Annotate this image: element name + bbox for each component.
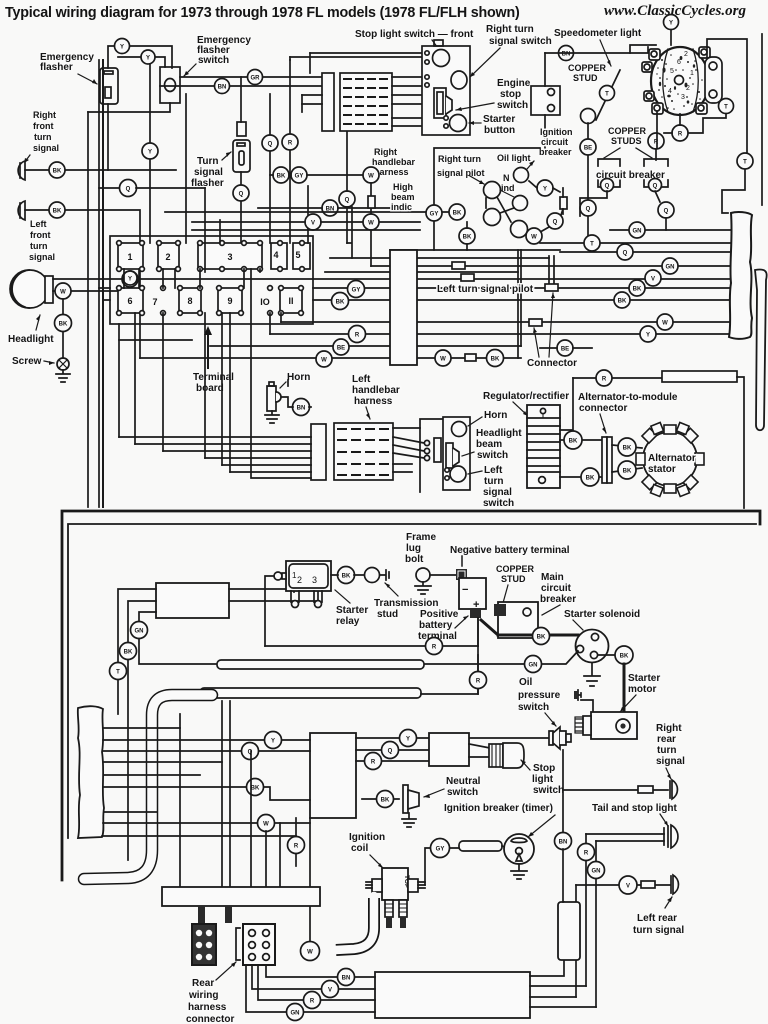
- wire x347: [346, 131, 348, 243]
- circle BK x281: [273, 167, 289, 183]
- ignition circuit breaker box: [531, 86, 560, 115]
- wire speedo top left: [630, 45, 656, 53]
- svg-text:Oil: Oil: [519, 677, 533, 688]
- bus y300: [103, 299, 731, 301]
- riser R: [585, 834, 587, 986]
- circle BK on thick wire: [533, 628, 550, 645]
- negative terminal stud: [456, 569, 467, 580]
- spark cable band: [335, 896, 374, 950]
- battery: [459, 578, 486, 609]
- svg-text:Left: Left: [30, 219, 47, 229]
- leader solenoid: [573, 620, 583, 630]
- leader negative terminal: [461, 556, 463, 566]
- svg-text:Y: Y: [646, 333, 650, 339]
- svg-text:handlebar: handlebar: [372, 157, 416, 167]
- long bar 1: [217, 660, 424, 669]
- svg-text:Ignition breaker (timer): Ignition breaker (timer): [444, 803, 553, 814]
- svg-text:Starter: Starter: [628, 673, 660, 684]
- wires into harness left: [302, 95, 322, 104]
- svg-text:connector: connector: [186, 1014, 234, 1024]
- svg-text:Right turn: Right turn: [438, 154, 481, 164]
- connector dots: [424, 440, 429, 445]
- starter solenoid body: [576, 630, 609, 663]
- svg-text:W: W: [307, 950, 313, 956]
- circle R coil feed: [288, 837, 305, 854]
- svg-text:front: front: [30, 230, 51, 240]
- svg-text:Ignition: Ignition: [540, 127, 573, 137]
- leader rear connector: [216, 962, 236, 980]
- svg-text:Tail and stop light: Tail and stop light: [592, 803, 677, 814]
- bus y358: [140, 357, 521, 359]
- wire x103 down: [102, 60, 104, 507]
- leader stop switch: [521, 760, 530, 770]
- relay left terminal: [274, 572, 282, 580]
- bus y212: [165, 211, 449, 213]
- svg-text:V: V: [651, 277, 655, 283]
- circle GY x299: [291, 167, 307, 183]
- headlight body: [11, 270, 49, 308]
- svg-text:R: R: [310, 999, 315, 1005]
- terminal 5: [293, 241, 310, 272]
- connector left rear: [641, 881, 655, 888]
- svg-text:BE: BE: [561, 347, 569, 353]
- svg-text:2: 2: [684, 51, 688, 58]
- svg-text:R: R: [602, 377, 607, 383]
- svg-text:Stop light switch — front: Stop light switch — front: [355, 29, 474, 40]
- vertical pair x549 x554: [549, 256, 554, 288]
- circle V left rear: [619, 876, 637, 894]
- svg-text:Q: Q: [586, 207, 591, 213]
- circle BK: [49, 162, 65, 178]
- svg-text:BK: BK: [59, 322, 68, 328]
- wire stud down: [587, 123, 589, 243]
- circle T on y243: [584, 235, 600, 251]
- svg-text:Negative battery terminal: Negative battery terminal: [450, 545, 570, 556]
- svg-text:8: 8: [187, 296, 192, 306]
- terminal 9: [217, 286, 244, 316]
- coil box bottom: [375, 972, 530, 1018]
- wire GR line: [180, 76, 322, 78]
- svg-text:2: 2: [297, 575, 302, 585]
- speedo bolts: [642, 47, 722, 114]
- svg-text:signal pilot: signal pilot: [437, 168, 485, 178]
- circle V on y279: [645, 270, 661, 286]
- bus y762: [104, 761, 222, 763]
- wire horn BN: [282, 380, 311, 407]
- svg-text:Y: Y: [271, 739, 275, 745]
- circle Q breaker2: [649, 179, 662, 192]
- svg-text:Q: Q: [388, 749, 393, 755]
- svg-text:Connector: Connector: [527, 358, 577, 369]
- turn signal flasher body: [233, 140, 250, 172]
- starter motor body: [591, 712, 637, 739]
- circle V rear: [322, 981, 339, 998]
- svg-text:beam: beam: [391, 192, 415, 202]
- svg-text:T: T: [605, 92, 609, 98]
- wire x150 from Y circle down: [149, 64, 151, 243]
- svg-text:Q: Q: [239, 192, 244, 198]
- circle T: [110, 663, 127, 680]
- lamp low: [511, 221, 528, 238]
- svg-text:Rear: Rear: [192, 978, 214, 989]
- wires harness right to switch: [392, 77, 446, 126]
- circle GN on y230: [629, 222, 645, 238]
- svg-text:T: T: [116, 670, 120, 676]
- neutral switch body: [403, 785, 408, 813]
- svg-text:1: 1: [690, 70, 694, 77]
- circle BN: [215, 79, 230, 94]
- circle Q: [580, 200, 596, 216]
- leader coil: [370, 855, 383, 868]
- leader arrow to emergency flasher: [78, 74, 97, 84]
- vertical pair x518 x521: [518, 250, 521, 358]
- circle BK: [55, 315, 72, 332]
- svg-text:battery: battery: [419, 620, 453, 631]
- circle W on y322: [657, 314, 673, 330]
- svg-text:turn: turn: [30, 241, 48, 251]
- connector small rect 4: [529, 319, 542, 326]
- rear connector block A: [192, 924, 216, 965]
- svg-text:Neutral: Neutral: [446, 776, 481, 787]
- circle GN on y266: [662, 258, 678, 274]
- wire x308 down: [307, 186, 309, 243]
- svg-text:R: R: [476, 679, 481, 685]
- svg-text:II: II: [288, 296, 293, 306]
- wire BN line: [545, 47, 648, 53]
- leader stop light switch: [432, 40, 438, 48]
- svg-text:Horn: Horn: [484, 410, 507, 421]
- svg-text:Headlight: Headlight: [476, 428, 522, 439]
- board inter-row stubs: [124, 269, 260, 288]
- circle Y: [142, 143, 158, 159]
- tall narrow connector box: [390, 250, 417, 365]
- circle Y cluster: [537, 180, 553, 196]
- module box 1: [310, 733, 356, 818]
- circle R on x478: [470, 672, 487, 689]
- leader positive terminal: [455, 616, 468, 628]
- svg-text:6: 6: [677, 59, 681, 66]
- emergency flasher body: [100, 68, 118, 104]
- circle R: [648, 133, 664, 149]
- wire x88 down: [87, 112, 89, 507]
- wires feed right to relay: [229, 589, 318, 601]
- bus y230: [192, 229, 420, 231]
- wire switch bottom loop: [88, 103, 170, 112]
- wire x186 from GR area down: [185, 94, 187, 243]
- wire headlight top feed y279: [53, 278, 390, 280]
- wire bar to lower box corner: [737, 377, 744, 508]
- terminal 3: [198, 241, 263, 272]
- leader transmission stud: [385, 583, 398, 596]
- svg-text:switch: switch: [198, 55, 229, 66]
- bus y272: [325, 271, 518, 273]
- svg-text:GY: GY: [295, 174, 304, 180]
- connector small rect 1: [452, 262, 465, 269]
- thick wire + to solenoid: [481, 620, 578, 635]
- svg-text:BK: BK: [623, 446, 632, 452]
- leader regulator: [513, 402, 528, 416]
- small component right of harness: [434, 438, 441, 462]
- verticals to bottom connectors: [180, 701, 280, 887]
- circle BK: [564, 431, 582, 449]
- svg-text:beam: beam: [476, 439, 502, 450]
- svg-text:Typical wiring diagram for 197: Typical wiring diagram for 1973 through …: [5, 5, 520, 21]
- right handlebar harness connector bar: [322, 73, 334, 131]
- svg-text:breaker: breaker: [540, 594, 576, 605]
- svg-text:Positive: Positive: [420, 609, 459, 620]
- wire top right of harness: [420, 419, 455, 492]
- wire feed left mid: [128, 601, 156, 860]
- circle GY on y288: [348, 281, 365, 298]
- circle Y above speedo: [670, 30, 672, 45]
- bus y266: [371, 265, 731, 267]
- circle D cluster: [547, 213, 563, 229]
- terminal 11: [279, 286, 304, 316]
- svg-text:Alternator-to-module: Alternator-to-module: [578, 392, 678, 403]
- svg-text:harness: harness: [188, 1002, 227, 1013]
- leader oil pressure: [545, 713, 556, 726]
- circle Y: [141, 50, 155, 64]
- alternator module connector bars: [602, 437, 607, 483]
- svg-text:W: W: [368, 221, 374, 227]
- circle T on diagonal: [600, 86, 615, 101]
- svg-text:Ignition: Ignition: [349, 832, 385, 843]
- svg-text:W: W: [60, 290, 66, 296]
- circle BN x330: [322, 200, 338, 216]
- circle BK lower bus: [247, 779, 264, 796]
- svg-text:BK: BK: [633, 287, 642, 293]
- svg-text:3: 3: [681, 94, 685, 101]
- wire x290 R drop: [289, 60, 291, 243]
- svg-text:Left rear: Left rear: [637, 913, 677, 924]
- condenser capsule: [459, 841, 502, 851]
- bus y346: [210, 345, 521, 347]
- wire feed x139: [139, 612, 217, 664]
- svg-text:Frame: Frame: [406, 532, 436, 543]
- svg-text:Speedometer light: Speedometer light: [554, 28, 642, 39]
- svg-text:coil: coil: [351, 843, 368, 854]
- copper stud square: [494, 604, 506, 616]
- starter relay body: [286, 561, 331, 591]
- svg-text:R: R: [294, 844, 299, 850]
- svg-text:flasher: flasher: [40, 62, 73, 73]
- connector small rect 2: [461, 274, 474, 281]
- terminal 7: [152, 286, 165, 316]
- svg-text:W: W: [321, 358, 327, 364]
- svg-text:9: 9: [227, 296, 232, 306]
- leader engine stop switch: [456, 103, 494, 110]
- svg-text:BN: BN: [559, 840, 568, 846]
- svg-text:lug: lug: [406, 543, 421, 554]
- circle BK relay right: [338, 567, 355, 584]
- wire T to speedo: [688, 114, 726, 133]
- stud chevrons: [604, 148, 652, 158]
- bus y322: [281, 321, 731, 323]
- svg-text:BK: BK: [336, 300, 345, 306]
- svg-text:bolt: bolt: [405, 554, 424, 565]
- svg-text:6: 6: [127, 296, 132, 306]
- svg-text:GR: GR: [251, 76, 261, 82]
- switch assembly housing: [422, 46, 470, 135]
- bus y230 right: [610, 229, 731, 231]
- circle BK: [618, 461, 636, 479]
- svg-text:COPPER: COPPER: [568, 63, 607, 73]
- svg-text:Left: Left: [352, 374, 371, 385]
- beam lamp: [484, 209, 501, 226]
- wires connector B to coil box: [266, 965, 375, 977]
- wire Y cluster: [529, 181, 560, 192]
- terminal 6: [117, 286, 145, 316]
- svg-text:Y: Y: [669, 21, 673, 27]
- right front turn signal lamp: [18, 161, 25, 180]
- bus y334: [270, 333, 731, 335]
- svg-text:turn signal: turn signal: [633, 925, 684, 936]
- svg-text:Y: Y: [543, 187, 547, 193]
- emergency flasher switch body: [160, 67, 180, 103]
- right turn signal switch knob: [451, 71, 467, 89]
- svg-text:V: V: [626, 884, 630, 890]
- svg-text:Main: Main: [541, 572, 564, 583]
- fuse capsule: [558, 902, 580, 960]
- riser BN to fuse: [562, 849, 564, 902]
- circle T right: [719, 99, 734, 114]
- circle BK low: [459, 228, 475, 244]
- svg-text:Right turn: Right turn: [486, 24, 534, 35]
- leader horn: [280, 382, 286, 388]
- wires into harness top: [290, 53, 422, 57]
- svg-text:stator: stator: [648, 464, 676, 475]
- svg-text:BE: BE: [337, 346, 345, 352]
- svg-text:5: 5: [295, 250, 300, 260]
- main harness band: [84, 695, 212, 879]
- wire to second Y: [118, 57, 165, 67]
- circle BK: [581, 468, 599, 486]
- svg-text:signal: signal: [29, 252, 55, 262]
- svg-text:GN: GN: [666, 265, 675, 271]
- svg-text:3: 3: [227, 252, 232, 262]
- svg-text:STUD: STUD: [573, 73, 598, 83]
- svg-text:Starter solenoid: Starter solenoid: [564, 609, 640, 620]
- circle GN rear: [287, 1004, 304, 1021]
- svg-text:BK: BK: [537, 635, 546, 641]
- wires module2 to stop switch: [469, 744, 490, 757]
- connector small rect 3: [545, 284, 558, 291]
- circle R: [672, 125, 688, 141]
- svg-text:handlebar: handlebar: [352, 385, 400, 396]
- terminal 2: [157, 241, 181, 272]
- long connector rect: [162, 887, 320, 906]
- svg-text:Terminal: Terminal: [193, 372, 234, 383]
- wire regulator top to R bus: [560, 378, 573, 430]
- timer body: [504, 834, 534, 864]
- circle GN: [131, 622, 148, 639]
- right harness region bottom line: [390, 249, 560, 251]
- svg-text:STUDS: STUDS: [611, 136, 642, 146]
- svg-text:motor: motor: [628, 684, 656, 695]
- circle R: [282, 134, 298, 150]
- bus y279 right: [417, 278, 731, 280]
- svg-text:R: R: [355, 333, 360, 339]
- leader starter button: [469, 122, 481, 124]
- circle GR: [248, 70, 263, 85]
- svg-text:BK: BK: [277, 174, 286, 180]
- svg-text:Alternator: Alternator: [648, 453, 696, 464]
- circle BK on y288: [629, 280, 645, 296]
- leader starter relay: [335, 590, 350, 603]
- wire right rear signal: [563, 789, 668, 791]
- circle GT on border: [426, 205, 442, 221]
- circuit breaker bracket 2: [644, 159, 668, 187]
- circle BN speedo: [559, 46, 574, 61]
- circle R rear: [304, 992, 321, 1009]
- circle Q on x128: [120, 180, 137, 197]
- svg-text:COPPER: COPPER: [608, 126, 647, 136]
- svg-text:W: W: [263, 822, 269, 828]
- solenoid ground: [584, 663, 600, 686]
- circle Y: [122, 271, 138, 287]
- svg-text:GN: GN: [135, 629, 144, 635]
- right rear lamp: [672, 780, 677, 799]
- wire b10 drop to y334: [270, 313, 281, 334]
- circle Y lower bus: [265, 732, 282, 749]
- svg-text:BK: BK: [586, 476, 595, 482]
- coil plug towers: [385, 900, 407, 928]
- svg-text:turn: turn: [34, 132, 52, 142]
- circle BK neutral: [377, 791, 394, 808]
- svg-text:W: W: [440, 357, 446, 363]
- wire y340 below board: [119, 340, 192, 358]
- circle R on y646: [426, 638, 443, 655]
- coil left tab: [372, 879, 382, 892]
- wires coil box right risers: [530, 902, 564, 976]
- svg-text:BK: BK: [463, 235, 472, 241]
- svg-text:signal: signal: [194, 167, 223, 178]
- left harness connector bar: [311, 424, 326, 480]
- circle BN on riser: [555, 833, 572, 850]
- left front turn signal lamp: [18, 201, 25, 220]
- circle Q: [262, 135, 278, 151]
- svg-text:W: W: [662, 321, 668, 327]
- circle R on y378: [596, 370, 612, 386]
- bus y728: [103, 727, 180, 729]
- module box 2: [429, 733, 469, 766]
- wire flasher bottom down: [107, 104, 109, 170]
- wire right vertical to T lower: [722, 169, 745, 213]
- bus y252: [560, 251, 731, 253]
- circle W cluster: [526, 228, 542, 244]
- leader main breaker: [542, 605, 560, 615]
- oil light lamp: [514, 168, 529, 183]
- svg-text:Y: Y: [406, 737, 410, 743]
- svg-text:stop: stop: [500, 89, 521, 100]
- svg-text:Starter: Starter: [336, 605, 368, 616]
- module wires right set: [356, 738, 429, 761]
- svg-text:High: High: [393, 182, 413, 192]
- vertical x310 W: [309, 818, 311, 941]
- svg-text:BK: BK: [453, 211, 462, 217]
- leader to turn signal flasher: [222, 152, 231, 160]
- board drops to left harness: [119, 269, 251, 472]
- svg-text:R: R: [678, 132, 683, 138]
- svg-text:Engine: Engine: [497, 78, 531, 89]
- svg-text:switch: switch: [447, 787, 478, 798]
- timer ground: [511, 864, 527, 879]
- bus y787: [103, 787, 310, 800]
- svg-text:7: 7: [152, 297, 157, 307]
- stop switch riser: [562, 750, 564, 833]
- bus y222: [192, 221, 420, 223]
- wire BE right stub: [540, 347, 592, 349]
